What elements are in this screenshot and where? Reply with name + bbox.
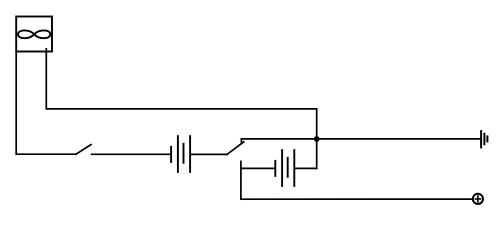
wire: SW2 lower contact stub down to bottom rail: [240, 161, 242, 199]
positive supply terminal circle: [473, 194, 483, 204]
meter M1 (box showing infinity reading): [16, 17, 52, 52]
junction dot: [314, 136, 320, 142]
battery B2 plate 3 (medium): [287, 157, 289, 178]
plus sign inside positive terminal: [475, 196, 480, 202]
wire: meter left terminal down and across to switch SW1: [16, 52, 76, 155]
battery B2 plate 4 (tall): [293, 149, 295, 187]
battery B1 plate 3 (medium): [183, 143, 185, 164]
earth (ground) symbol bar 3: [486, 135, 488, 142]
wire: bottom rail to positive terminal: [241, 198, 472, 200]
battery B2 plate 1 (short): [274, 160, 276, 177]
wire: SW2 upper contact to junction and earth: [241, 138, 481, 140]
wire: lower contact to battery B2: [241, 167, 275, 169]
wire: SW1 right contact to battery B1: [92, 153, 171, 155]
earth (ground) symbol bar 1: [480, 130, 482, 148]
battery B1 plate 4 (tall): [189, 135, 191, 173]
battery B1 plate 1 (short): [170, 146, 172, 163]
earth (ground) symbol bar 2: [483, 133, 485, 145]
switch SW1 blade (open): [76, 145, 91, 155]
battery B1 plate 2 (tall): [177, 135, 179, 173]
switch SW2 blade: [227, 142, 244, 155]
wire: battery B2 right terminal to junction vertical: [295, 167, 316, 169]
battery B2 plate 2 (tall): [281, 149, 283, 187]
wire: meter right terminal down, across top, down through junction: [46, 49, 316, 168]
switch SW2 upper contact stub: [240, 139, 242, 144]
infinity symbol inside meter: [18, 30, 50, 38]
wire: battery B1 to switch SW2 common: [191, 153, 227, 155]
